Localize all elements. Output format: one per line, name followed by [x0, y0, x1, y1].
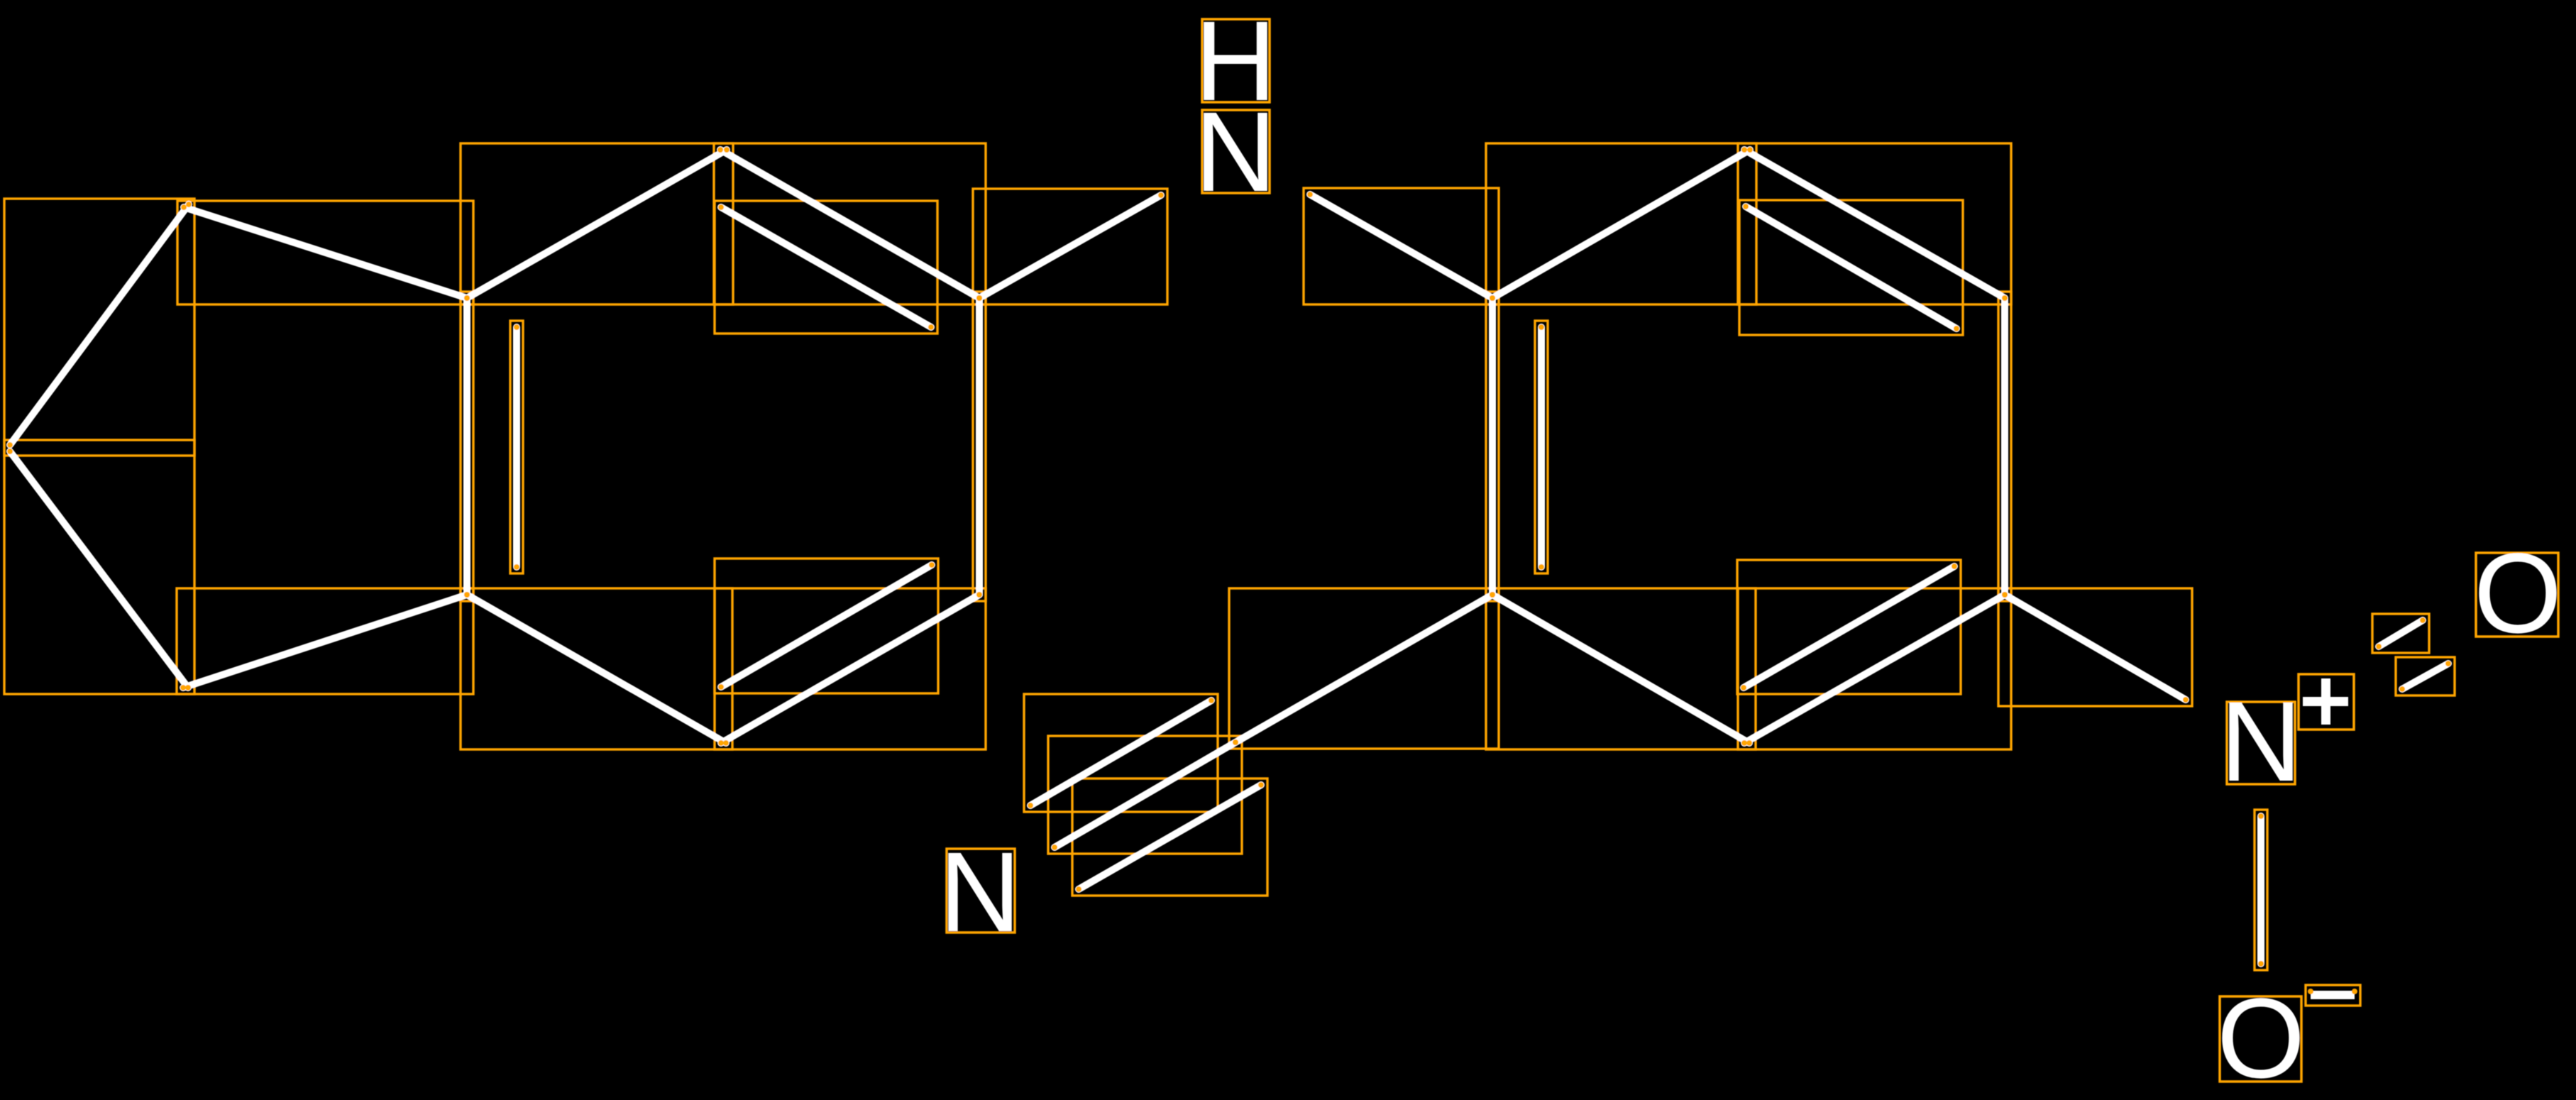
- bond C6'-C5' ring2 upper-right edge: [1744, 150, 2005, 298]
- bounding box of ring2 left edge inner double-bond line: [1535, 321, 1548, 573]
- nitrile triple bond line 2 (middle): [1055, 742, 1235, 847]
- endpoint dots of bond C7-C6 ring1 upper-right edge: [717, 147, 982, 301]
- bounding box of ring2 upper-right inner double-bond line: [1739, 200, 1963, 335]
- bounding box of bond C1-C2 (indane apex upper): [4, 199, 194, 456]
- bounding box of nitro O minus charge bar: [2306, 985, 2360, 1006]
- nitro N plus charge symbol: [2303, 678, 2348, 725]
- endpoint dots of ring1 lower-right inner double-bond line: [718, 562, 935, 690]
- bounding box of bond C1-C7a (indane top long): [177, 201, 473, 304]
- bond C1'-C6' ring2 upper-left edge: [1492, 150, 1750, 298]
- endpoint dots of ring1 left edge inner double-bond line: [514, 324, 519, 570]
- bounding box of nitrile triple bond line 1 (upper): [1024, 694, 1218, 812]
- bounding box of ring1 upper-right inner double-bond line: [715, 201, 937, 334]
- bond C6-N(H) amine left bond: [979, 195, 1161, 298]
- bounding box of nitro N=O double bond upper segment: [2372, 614, 2429, 653]
- bounding box of bond C1'-C2' ring2 left edge: [1486, 292, 1499, 601]
- endpoint dots of ring1 upper-right inner double-bond line: [718, 204, 934, 330]
- bounding box of nitro N label: [2227, 702, 2295, 784]
- endpoint dots of nitro N=O double bond upper segment: [2376, 617, 2426, 649]
- endpoint dots of bond C6-N(H) amine left bond: [976, 192, 1164, 301]
- bond C3a-C7a ring1 left edge: [463, 298, 470, 595]
- bond C1'-C2' ring2 left edge: [1489, 298, 1496, 595]
- endpoint dots of bond C4-C3a ring1 lower-left edge: [464, 592, 729, 746]
- bond C1-C7a (indane top long): [184, 207, 467, 298]
- endpoint dots of ring2 lower-right inner double-bond line: [1741, 563, 1957, 691]
- endpoint dots of bond C4'-N(nitro): [2002, 592, 2189, 703]
- endpoint dots of bond C1-C7a (indane top long): [181, 204, 470, 301]
- bounding box of bond C3a-C7a ring1 left edge: [461, 292, 473, 601]
- bounding box of bond C3-C3a (indane bottom long): [177, 588, 473, 694]
- nitro N=O double bond upper segment: [2379, 620, 2423, 647]
- bounding box of amine H label: [1202, 19, 1270, 102]
- bounding box of bond C3'-C2' ring2 lower-left edge: [1486, 588, 1756, 749]
- ring2 lower-right inner double-bond line: [1744, 566, 1954, 688]
- endpoint dots of nitrile triple bond line 3 (lower): [1076, 782, 1264, 892]
- svg-text:O: O: [2217, 974, 2305, 1100]
- ring2 left edge inner double-bond line: [1538, 327, 1545, 567]
- ring1 left edge inner double-bond line: [513, 327, 520, 567]
- bounding box of ring1 lower-right inner double-bond line: [715, 559, 938, 693]
- endpoint dots of bond C3a-C7a ring1 left edge: [464, 295, 470, 598]
- endpoint dots of nitro N-O(-) single bond: [2258, 813, 2264, 967]
- bond C1-C2 (indane apex upper): [10, 204, 189, 445]
- ring1 upper-right inner double-bond line: [721, 207, 931, 327]
- endpoint dots of bond C5'-C4' ring2 right edge: [2002, 295, 2008, 598]
- endpoint dots of bond C3-C3a (indane bottom long): [180, 592, 470, 691]
- bond C3'-C4' ring2 lower-right edge: [1744, 595, 2005, 743]
- bounding box of bond C6-N(H) amine left bond: [973, 189, 1167, 304]
- bounding box of bond C5'-C4' ring2 right edge: [1998, 292, 2011, 601]
- bounding box of bond C4-C5 ring1 lower-right edge: [715, 588, 986, 749]
- bounding box of amine N label: [1202, 110, 1270, 193]
- bounding box of nitro O label (negative): [2220, 996, 2301, 1082]
- svg-text:N: N: [1194, 88, 1277, 215]
- bond C6-C5 ring1 right edge: [976, 298, 983, 595]
- nitro N=O double bond lower segment: [2402, 664, 2448, 689]
- bounding box of bond C2'-C(CN) to nitrile carbon: [1229, 588, 1499, 749]
- bounding box of bond C4-C3a ring1 lower-left edge: [461, 588, 732, 749]
- endpoint dots of bond C1-C2 (indane apex upper): [7, 202, 192, 448]
- endpoint dots of nitro N=O double bond lower segment: [2399, 661, 2451, 692]
- bond C2-C3 (indane apex lower): [10, 451, 188, 688]
- endpoint dots of bond C3'-C2' ring2 lower-left edge: [1490, 592, 1752, 746]
- nitrile triple bond line 1 (upper): [1030, 700, 1211, 805]
- endpoint dots of bond C3'-C4' ring2 lower-right edge: [1741, 592, 2008, 746]
- bounding box of nitro N-O(-) single bond: [2255, 810, 2267, 970]
- endpoint dots of bond C1'-C6' ring2 upper-left edge: [1490, 147, 1753, 301]
- bounding box of bond C6-C5 ring1 right edge: [973, 292, 986, 601]
- bond N(H)-C1' amine right bond: [1310, 194, 1492, 298]
- bounding box of nitrile triple bond line 2 (middle): [1048, 736, 1242, 854]
- bounding box of bond C7-C6 ring1 upper-right edge: [714, 143, 986, 304]
- endpoint dots of ring2 left edge inner double-bond line: [1539, 324, 1544, 570]
- bounding box of bond C2-C3 (indane apex lower): [4, 440, 194, 694]
- bounding box of bond C4'-N(nitro): [1998, 588, 2192, 706]
- endpoint dots of bond C2-C3 (indane apex lower): [7, 449, 191, 691]
- bounding box of bond C1'-C6' ring2 upper-left edge: [1486, 143, 1756, 304]
- bounding box of bond N(H)-C1' amine right bond: [1304, 188, 1499, 304]
- endpoint dots of bond C4-C5 ring1 lower-right edge: [718, 592, 982, 746]
- bounding box of bond C6'-C5' ring2 upper-right edge: [1738, 143, 2011, 304]
- bounding box of ring2 lower-right inner double-bond line: [1737, 560, 1961, 694]
- bond C4-C3a ring1 lower-left edge: [467, 595, 726, 743]
- endpoint dots of bond C7a-C7 ring1 upper-left edge: [464, 147, 730, 301]
- nitro O minus charge bar: [2311, 991, 2355, 999]
- bounding box of ring1 left edge inner double-bond line: [510, 321, 523, 573]
- bond C5'-C4' ring2 right edge: [2001, 298, 2008, 595]
- endpoint dots of nitrile triple bond line 2 (middle): [1052, 739, 1238, 850]
- endpoint dots of bond C6'-C5' ring2 upper-right edge: [1741, 147, 2008, 301]
- bounding box of nitro O label (double-bonded): [2476, 553, 2558, 637]
- nitrile triple bond line 3 (lower): [1079, 785, 1261, 889]
- endpoint dots of nitrile triple bond line 1 (upper): [1028, 698, 1214, 808]
- bounding box of nitrile N label: [947, 849, 1015, 933]
- bounding box of nitrile triple bond line 3 (lower): [1072, 779, 1267, 896]
- endpoint dots of bond C2'-C(CN) to nitrile carbon: [1233, 592, 1495, 745]
- svg-text:N: N: [939, 828, 1021, 955]
- bounding box of nitro N=O double bond lower segment: [2396, 657, 2455, 695]
- endpoint dots of nitro O minus charge bar: [2308, 989, 2357, 994]
- bond C3-C3a (indane bottom long): [183, 595, 467, 688]
- endpoint dots of ring2 upper-right inner double-bond line: [1743, 204, 1959, 331]
- bounding box of bond C7a-C7 ring1 upper-left edge: [461, 143, 733, 304]
- bond C4'-N(nitro): [2005, 595, 2186, 700]
- svg-text:N: N: [2220, 678, 2302, 805]
- endpoint dots of bond C6-C5 ring1 right edge: [976, 295, 982, 598]
- bond C3'-C2' ring2 lower-left edge: [1492, 595, 1749, 743]
- svg-text:O: O: [2474, 529, 2562, 656]
- nitro N-O(-) single bond: [2257, 816, 2264, 964]
- bond C7a-C7 ring1 upper-left edge: [467, 150, 727, 298]
- endpoint dots of bond C1'-C2' ring2 left edge: [1490, 295, 1495, 598]
- ring1 lower-right inner double-bond line: [721, 565, 932, 687]
- bounding box of nitro N plus charge symbol: [2299, 674, 2354, 730]
- bounding box of bond C3'-C4' ring2 lower-right edge: [1738, 588, 2011, 749]
- bond C2'-C(CN) to nitrile carbon: [1235, 595, 1492, 742]
- ring2 upper-right inner double-bond line: [1746, 207, 1956, 329]
- bond C7-C6 ring1 upper-right edge: [720, 150, 979, 298]
- bond C4-C5 ring1 lower-right edge: [721, 595, 979, 743]
- endpoint dots of bond N(H)-C1' amine right bond: [1307, 192, 1495, 301]
